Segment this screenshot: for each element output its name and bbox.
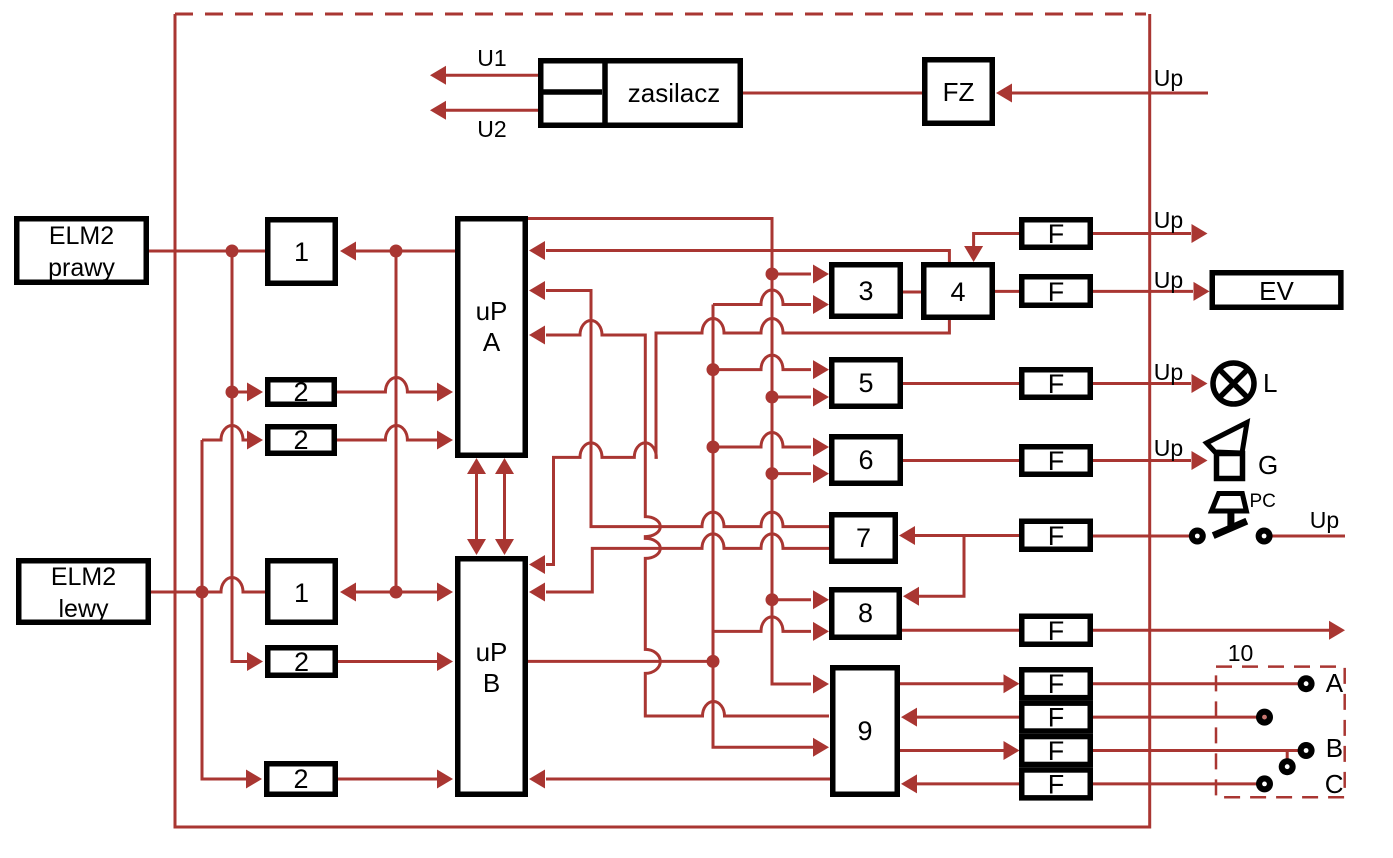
svg-text:F: F	[1048, 616, 1065, 646]
svg-text:prawy: prawy	[48, 254, 115, 282]
svg-text:Up: Up	[1310, 507, 1339, 533]
svg-text:5: 5	[858, 368, 873, 398]
svg-text:1: 1	[294, 578, 309, 608]
svg-text:Up: Up	[1154, 435, 1183, 461]
svg-text:Up: Up	[1154, 359, 1183, 385]
svg-text:F: F	[1048, 446, 1065, 476]
svg-text:B: B	[1326, 733, 1343, 763]
svg-text:C: C	[1325, 769, 1344, 799]
svg-text:F: F	[1048, 369, 1065, 399]
svg-text:1: 1	[294, 237, 309, 267]
svg-text:A: A	[1326, 668, 1344, 698]
svg-text:L: L	[1263, 368, 1277, 398]
svg-text:F: F	[1048, 736, 1065, 766]
svg-text:8: 8	[858, 598, 873, 628]
svg-text:2: 2	[293, 425, 308, 455]
svg-text:U2: U2	[477, 116, 506, 142]
svg-text:F: F	[1048, 521, 1065, 551]
svg-text:2: 2	[293, 377, 308, 407]
svg-text:F: F	[1048, 669, 1065, 699]
svg-text:uP: uP	[476, 296, 508, 326]
svg-text:F: F	[1048, 219, 1065, 249]
svg-text:zasilacz: zasilacz	[628, 78, 720, 108]
svg-text:7: 7	[856, 523, 871, 553]
svg-text:lewy: lewy	[58, 595, 109, 623]
svg-text:F: F	[1048, 703, 1065, 733]
svg-text:FZ: FZ	[943, 77, 975, 107]
svg-text:10: 10	[1228, 640, 1254, 666]
svg-text:A: A	[483, 327, 501, 357]
svg-text:ELM2: ELM2	[49, 222, 114, 250]
svg-text:2: 2	[294, 647, 309, 677]
svg-text:G: G	[1258, 450, 1278, 480]
svg-text:Up: Up	[1154, 65, 1183, 91]
svg-text:2: 2	[293, 764, 308, 794]
svg-text:U1: U1	[477, 45, 506, 71]
svg-text:PC: PC	[1250, 491, 1276, 512]
svg-text:Up: Up	[1154, 267, 1183, 293]
svg-text:6: 6	[858, 445, 873, 475]
svg-text:9: 9	[857, 716, 872, 746]
svg-text:F: F	[1048, 277, 1065, 307]
svg-text:4: 4	[950, 277, 965, 307]
svg-text:B: B	[483, 668, 500, 698]
svg-text:uP: uP	[476, 637, 508, 667]
svg-text:ELM2: ELM2	[51, 563, 116, 591]
svg-text:Up: Up	[1154, 207, 1183, 233]
svg-text:3: 3	[858, 276, 873, 306]
svg-text:F: F	[1048, 769, 1065, 799]
svg-text:EV: EV	[1259, 276, 1294, 306]
